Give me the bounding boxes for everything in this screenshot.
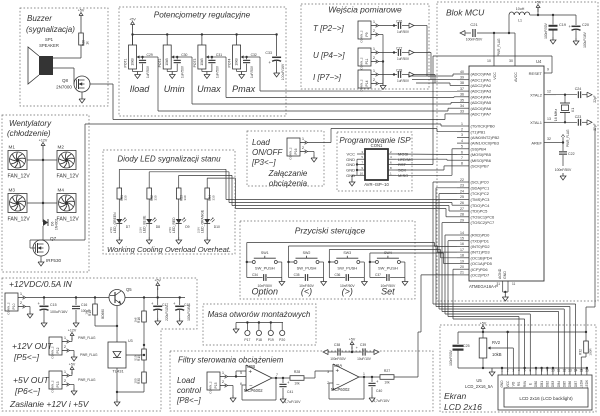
title Zalaczanie obciazenia xyxy=(251,138,308,188)
svg-text:CONN_2: CONN_2 xyxy=(360,79,364,92)
svg-text:11: 11 xyxy=(512,282,516,286)
svg-text:POT4: POT4 xyxy=(228,58,232,67)
svg-text:100nF/50V: 100nF/50V xyxy=(330,357,346,361)
section box Buzzer xyxy=(20,8,108,106)
svg-text:RV2: RV2 xyxy=(492,340,501,345)
diode D6 flyback xyxy=(43,219,59,230)
title +12VDC/0.5A IN xyxy=(9,279,73,289)
svg-text:(TMS)PC3: (TMS)PC3 xyxy=(471,197,491,202)
label Working Cooling Overload Overheat xyxy=(107,245,231,254)
svg-text:(SDA)PC1: (SDA)PC1 xyxy=(471,185,490,190)
svg-text:19: 19 xyxy=(460,259,464,263)
wire buzzer bus to PA7 xyxy=(113,114,457,120)
svg-text:SW1: SW1 xyxy=(261,251,269,255)
label Umin xyxy=(164,84,185,94)
svg-text:100nF/50V: 100nF/50V xyxy=(466,38,483,42)
svg-text:R19: R19 xyxy=(137,355,141,361)
svg-text:C21: C21 xyxy=(470,22,478,27)
svg-text:22pF: 22pF xyxy=(593,95,597,102)
wire SW2 to MCU xyxy=(289,246,458,262)
svg-text:P17: P17 xyxy=(244,338,250,342)
pin 18 (OC1B)PD4 xyxy=(457,254,493,261)
motor fan M1 FAN_12V xyxy=(8,145,31,180)
capacitor C35 10nF/50V xyxy=(289,262,324,288)
wire speaker to R26 xyxy=(53,45,81,58)
svg-text:32: 32 xyxy=(547,137,551,141)
svg-text:100nF/50V: 100nF/50V xyxy=(449,349,453,365)
svg-text:C15: C15 xyxy=(50,303,57,307)
capacitor C37 10nF/50V xyxy=(370,262,405,288)
capacitor C39 10uF/10V xyxy=(352,343,379,361)
wire PD1 to LCD RS xyxy=(448,241,519,373)
resistor R19 510 xyxy=(134,344,147,372)
pin 10 VCC xyxy=(487,58,497,80)
capacitor C41 4,7uF/10V xyxy=(279,378,301,404)
mounting hole P18 xyxy=(256,323,262,343)
svg-text:LED_RED: LED_RED xyxy=(172,217,176,233)
svg-text:CONN_2: CONN_2 xyxy=(360,30,364,43)
svg-text:P13: P13 xyxy=(56,381,60,387)
svg-text:Przyciski sterujące: Przyciski sterujące xyxy=(295,226,366,236)
svg-text:TL431: TL431 xyxy=(112,369,124,374)
svg-text:3: 3 xyxy=(461,133,463,137)
wire input rail xyxy=(26,296,110,298)
wire U6A output node xyxy=(359,376,380,378)
wire D9 to MCU xyxy=(179,175,232,205)
section box Filtry xyxy=(170,351,433,411)
svg-text:POT1: POT1 xyxy=(124,58,128,67)
wire RV2 wiper to VO pin3 xyxy=(492,348,513,373)
svg-text:10kB: 10kB xyxy=(235,58,239,65)
title Filtry sterowania obciazeniem xyxy=(178,356,284,365)
pin 21 (OC2)PD7 xyxy=(457,271,490,278)
svg-text:21: 21 xyxy=(460,271,464,275)
wire U signal to MCU xyxy=(414,53,431,80)
svg-text:+5V: +5V xyxy=(78,9,85,13)
wire fan row2 xyxy=(27,202,57,204)
power +5V LCD xyxy=(480,322,487,339)
svg-text:M3: M3 xyxy=(9,188,16,193)
svg-text:SPEAKER: SPEAKER xyxy=(39,43,59,48)
pin 1 (T0/XCK)PB0 xyxy=(457,122,496,129)
svg-text:PWR_FLAG: PWR_FLAG xyxy=(497,38,501,56)
svg-text:1uF/50V: 1uF/50V xyxy=(397,30,410,34)
svg-text:CON1: CON1 xyxy=(371,143,383,148)
wire U6A feedback xyxy=(329,377,364,399)
capacitor C24 22pF xyxy=(575,87,597,103)
svg-text:(ADC2)PA2: (ADC2)PA2 xyxy=(471,83,492,88)
svg-text:+5V OUT: +5V OUT xyxy=(13,375,49,385)
wire LED bus to PC5 xyxy=(232,206,457,212)
svg-text:Załączanie: Załączanie xyxy=(268,169,308,178)
svg-text:(TOSC1)PC6: (TOSC1)PC6 xyxy=(471,214,495,219)
svg-text:P9: P9 xyxy=(365,32,369,36)
pin CON1 row 5 GND/MISO xyxy=(346,171,408,178)
ground SW4 xyxy=(402,278,408,286)
svg-text:MCP6002: MCP6002 xyxy=(244,388,263,393)
svg-text:U3: U3 xyxy=(128,339,133,343)
svg-text:C38: C38 xyxy=(334,343,340,347)
pin 37 (ADC3)PA3 xyxy=(457,87,492,94)
pin LCD 3 xyxy=(512,369,516,387)
svg-text:8: 8 xyxy=(541,369,543,373)
mounting hole P17 xyxy=(244,323,250,343)
svg-text:2: 2 xyxy=(461,128,463,132)
svg-text:Filtry sterowania obciążeniem: Filtry sterowania obciążeniem xyxy=(178,356,284,365)
svg-text:C30: C30 xyxy=(181,53,187,57)
svg-text:R28: R28 xyxy=(294,370,300,374)
capacitor C19 100nF/50V xyxy=(544,15,566,39)
ground SW3 xyxy=(361,278,367,286)
svg-text:6: 6 xyxy=(461,150,463,154)
svg-text:C22: C22 xyxy=(568,152,575,156)
svg-text:10: 10 xyxy=(360,171,364,175)
svg-text:Set: Set xyxy=(381,287,395,297)
svg-text:330: 330 xyxy=(154,195,158,200)
svg-text:5: 5 xyxy=(524,369,526,373)
wire R30 to ground node xyxy=(117,391,144,393)
wire PD0 to LCD E xyxy=(445,235,530,373)
svg-text:RS: RS xyxy=(517,382,521,386)
op-amp U6B MCP6002 xyxy=(240,364,278,393)
pin 38 (ADC2)PA2 xyxy=(457,81,492,88)
potentiometer RV2 10kB contrast xyxy=(479,332,502,368)
svg-text:POT2: POT2 xyxy=(158,58,162,67)
ground LCD rail xyxy=(489,368,495,376)
section box Przyciski sterujace xyxy=(240,221,415,299)
connector P13 +5V out xyxy=(49,369,70,393)
ground C19 xyxy=(550,37,556,44)
transistor Q5 BD680 pass xyxy=(101,287,132,319)
pin 12 XTAL2 xyxy=(530,89,556,97)
inductor L1 10uH xyxy=(509,7,530,33)
pin 33 (ADC7)PA7 xyxy=(457,110,492,117)
svg-text:3: 3 xyxy=(512,369,514,373)
svg-text:D7: D7 xyxy=(126,225,130,229)
connector P16 load on/off xyxy=(287,136,308,160)
pin 25 (TMS)PC3 xyxy=(457,195,490,202)
svg-text:510: 510 xyxy=(134,355,138,360)
wire PC0 to LCD DB7 xyxy=(433,182,576,373)
capacitor C25 100nF/50V xyxy=(449,332,470,368)
title Load control P8 xyxy=(176,376,201,405)
svg-text:4,7uF/10V: 4,7uF/10V xyxy=(284,400,301,404)
LED D7 LED_GREEN xyxy=(109,199,130,233)
svg-text:4,7uF/10V: 4,7uF/10V xyxy=(373,399,390,403)
wire Iload wiper to ADC bus xyxy=(143,57,159,111)
svg-text:GND: GND xyxy=(346,162,355,167)
wire PD6 stub xyxy=(453,269,525,373)
wire TL431 cathode/ref xyxy=(116,355,144,398)
section box Diody LED xyxy=(103,150,235,254)
ground SW2 xyxy=(321,278,327,286)
svg-text:IRF530: IRF530 xyxy=(46,258,62,263)
wire SW3 to MCU xyxy=(329,250,457,263)
wire R27 to PWM feed xyxy=(394,275,457,377)
wire ISP MOSI to PB5 xyxy=(396,153,457,156)
label Pmax xyxy=(232,84,256,94)
svg-text:Ekran: Ekran xyxy=(444,391,466,401)
svg-text:4: 4 xyxy=(518,369,520,373)
svg-text:(RXD)PD0: (RXD)PD0 xyxy=(471,233,491,238)
svg-text:C39: C39 xyxy=(360,343,366,347)
svg-text:P12: P12 xyxy=(56,347,60,353)
resistor R21 330R xyxy=(117,169,128,201)
svg-text:2,5V: 2,5V xyxy=(197,227,201,233)
wire LCD grounded pins xyxy=(502,368,587,373)
pin 13 XTAL1 xyxy=(530,117,556,125)
pin 29 (TOSC2)PC7 xyxy=(457,218,495,225)
svg-text:Load: Load xyxy=(177,376,195,385)
title Zasilanie +12V i +5V xyxy=(9,399,90,409)
svg-text:1: 1 xyxy=(501,369,503,373)
wire VCC AVCC feeds xyxy=(493,32,515,66)
potentiometer POT2 Umin xyxy=(158,35,176,70)
pin CON1 row 2 GND/LED/MC xyxy=(346,155,413,162)
svg-text:GND: GND xyxy=(346,168,355,173)
svg-text:P15: P15 xyxy=(214,382,218,388)
capacitor C23 22pF xyxy=(575,115,597,131)
svg-text:37: 37 xyxy=(460,87,464,91)
label (&gt;) xyxy=(342,287,353,297)
svg-text:FAN_12V: FAN_12V xyxy=(57,217,80,223)
ground SW1 xyxy=(279,278,285,286)
svg-text:100uF/16V: 100uF/16V xyxy=(187,304,191,320)
svg-text:C27: C27 xyxy=(396,47,402,51)
svg-text:(ADC7)PA7: (ADC7)PA7 xyxy=(471,112,492,117)
section box Masa otworow xyxy=(203,304,316,345)
pin 17 (INT1)PD3 xyxy=(457,248,490,255)
motor fan M4 FAN_12V xyxy=(57,188,80,223)
label +5V OUT [P6] xyxy=(13,375,49,396)
svg-text:+5V: +5V xyxy=(349,338,356,342)
pin 3 (AIN0/INT2)PB2 xyxy=(457,133,500,140)
svg-text:+: + xyxy=(336,369,340,375)
svg-text:Load: Load xyxy=(252,138,270,147)
svg-text:GND: GND xyxy=(500,380,504,388)
svg-text:SW2: SW2 xyxy=(303,251,311,255)
svg-text:Pmax: Pmax xyxy=(232,84,256,94)
svg-text:DB7: DB7 xyxy=(574,381,578,387)
wire Umin wiper to ADC bus xyxy=(177,57,192,104)
svg-text:(sygnalizacja): (sygnalizacja) xyxy=(26,25,75,34)
svg-text:100: 100 xyxy=(134,378,138,383)
svg-text:P11: P11 xyxy=(365,58,369,64)
title Blok MCU xyxy=(446,8,485,18)
svg-text:Zasilanie +12V i +5V: Zasilanie +12V i +5V xyxy=(9,399,90,409)
svg-text:C31: C31 xyxy=(216,53,222,57)
pin LCD 7 xyxy=(534,369,538,388)
wire Q7 gate to PWM bus xyxy=(30,124,85,248)
svg-text:10k: 10k xyxy=(384,381,390,385)
wire D7 to MCU xyxy=(119,169,226,199)
resistor R18 1k xyxy=(85,298,98,323)
section box Wejscia pomiarowe xyxy=(301,4,429,89)
resistor R32 100R backlight xyxy=(579,332,593,373)
connector P11 input U xyxy=(313,46,379,70)
pin 23 (SDA)PC1 xyxy=(457,184,490,191)
svg-text:100uF/16V: 100uF/16V xyxy=(50,310,68,314)
svg-text:(MOSI)PB5: (MOSI)PB5 xyxy=(471,152,492,157)
svg-text:LEDA: LEDA xyxy=(579,379,583,388)
svg-text:13: 13 xyxy=(568,369,572,373)
svg-text:XTAL1: XTAL1 xyxy=(530,120,543,125)
svg-text:15: 15 xyxy=(579,369,583,373)
svg-text:100uF/16V: 100uF/16V xyxy=(583,31,587,47)
mounting hole P19 xyxy=(268,323,274,343)
wire Pmax wiper to ADC bus xyxy=(247,57,260,91)
svg-text:obciążenia: obciążenia xyxy=(269,179,308,188)
svg-text:3: 3 xyxy=(327,370,329,374)
svg-text:XTAL2: XTAL2 xyxy=(530,93,543,98)
pin 4 (AIN1/OC0)PB3 xyxy=(457,139,500,146)
svg-text:(ADC1)PA1: (ADC1)PA1 xyxy=(471,77,492,82)
svg-text:VCC: VCC xyxy=(506,380,510,387)
svg-text:FAN_12V: FAN_12V xyxy=(57,174,80,180)
pin 35 (ADC5)PA5 xyxy=(457,98,492,105)
wire I to PA2 xyxy=(416,83,457,85)
capacitor C33 100uF/16V xyxy=(265,35,285,81)
capacitor C38 100nF/50V decoupling xyxy=(323,343,352,361)
svg-text:(SCK)PB7: (SCK)PB7 xyxy=(471,164,490,169)
svg-text:BD680: BD680 xyxy=(101,309,105,319)
svg-text:28: 28 xyxy=(460,213,464,217)
svg-text:C20: C20 xyxy=(582,23,589,27)
svg-text:LCD 2x16: LCD 2x16 xyxy=(444,402,482,412)
title Przyciski sterujace xyxy=(295,226,366,236)
svg-text:330: 330 xyxy=(183,195,187,200)
pin 15 (TXD)PD1 xyxy=(457,237,490,244)
ground CON1 xyxy=(349,179,355,186)
svg-text:(ADC3)PA3: (ADC3)PA3 xyxy=(471,89,492,94)
power +12V P12 flag xyxy=(68,329,96,342)
ground C16 xyxy=(73,320,79,327)
svg-text:AVCC: AVCC xyxy=(514,72,518,82)
ground C33 xyxy=(274,70,280,77)
svg-text:7: 7 xyxy=(535,369,537,373)
svg-text:Wentylatory: Wentylatory xyxy=(9,119,52,128)
resistor R30 100 xyxy=(134,372,147,392)
wire ISP RST to RESET pin xyxy=(396,56,552,165)
svg-text:18: 18 xyxy=(460,254,464,258)
svg-text:U6A: U6A xyxy=(334,363,342,368)
pin LCD 10 xyxy=(551,369,555,388)
wire R18 to base node xyxy=(95,322,118,327)
svg-text:+5V: +5V xyxy=(480,322,487,326)
svg-text:2N7000: 2N7000 xyxy=(56,85,72,90)
svg-text:2: 2 xyxy=(507,369,509,373)
svg-text:E: E xyxy=(529,383,533,385)
title Masa otworow montazowych xyxy=(208,310,311,319)
resistor R26 buzzer pull-up xyxy=(79,33,90,46)
wire D10 to MCU xyxy=(207,178,235,208)
pin LCD 2 xyxy=(506,369,510,388)
wire CON1 gnd bus xyxy=(352,159,358,179)
svg-text:L1: L1 xyxy=(518,19,522,23)
svg-text:DB0: DB0 xyxy=(534,381,538,387)
op IC U4 ATMEGA16A-P body xyxy=(469,59,544,289)
svg-text:11: 11 xyxy=(557,369,561,373)
svg-text:PWR_FLAG: PWR_FLAG xyxy=(566,129,570,147)
ground C18 xyxy=(177,318,183,325)
connector P14 input I xyxy=(313,68,379,92)
wire fan center column xyxy=(42,152,44,222)
svg-text:DB2: DB2 xyxy=(545,381,549,387)
svg-text:M1: M1 xyxy=(9,145,16,150)
ground D9 xyxy=(176,223,182,244)
svg-text:100nF/50V: 100nF/50V xyxy=(544,22,548,38)
svg-text:20: 20 xyxy=(460,265,464,269)
svg-text:Wejścia pomiarowe: Wejścia pomiarowe xyxy=(328,5,402,15)
wire Q5 emitter rail +5 xyxy=(125,296,185,298)
svg-text:U [P4−>]: U [P4−>] xyxy=(313,51,345,60)
capacitor C15 100uF/16V xyxy=(38,298,69,321)
ground Wejscia common xyxy=(380,60,386,89)
svg-text:M4: M4 xyxy=(58,188,65,193)
svg-text:M2: M2 xyxy=(58,145,65,150)
wire P11 pin2 to gnd bus xyxy=(379,62,384,84)
svg-text:1uF/50V: 1uF/50V xyxy=(250,65,254,78)
wire LCD ground rail xyxy=(458,367,588,369)
svg-text:CONN_2: CONN_2 xyxy=(51,346,55,359)
resistor R23 330R xyxy=(176,175,187,201)
potentiometer POT3 Umax xyxy=(193,35,211,70)
svg-text:27: 27 xyxy=(460,207,464,211)
svg-text:LEDK: LEDK xyxy=(585,379,589,388)
svg-text:D10: D10 xyxy=(214,225,220,229)
wire P14 pin2 to gnd bus xyxy=(379,83,384,85)
svg-text:+12VDC/0.5A IN: +12VDC/0.5A IN xyxy=(9,279,73,289)
svg-text:25: 25 xyxy=(460,195,464,199)
pin CON1 row 4 GND/SCK xyxy=(346,166,406,173)
wire LED bus to PC3 xyxy=(226,198,457,200)
svg-text:30: 30 xyxy=(509,59,513,63)
svg-text:7: 7 xyxy=(461,156,463,160)
svg-text:C32: C32 xyxy=(251,53,257,57)
svg-text:SW_PUSH: SW_PUSH xyxy=(297,266,317,271)
label +12V OUT [P5] xyxy=(12,341,53,362)
capacitor C22 100nF/50V xyxy=(555,152,575,172)
svg-text:CONN_2: CONN_2 xyxy=(7,302,11,315)
ground P10 pin2 xyxy=(26,307,34,319)
ground C17 xyxy=(155,318,161,325)
wire R28 to U6A + xyxy=(304,371,333,378)
svg-text:C24: C24 xyxy=(575,87,582,91)
svg-text:C34: C34 xyxy=(252,273,258,277)
section box Programowanie ISP xyxy=(337,132,412,191)
svg-text:13: 13 xyxy=(547,117,551,121)
resistor R27 10k xyxy=(380,369,394,385)
wire XTAL2 net xyxy=(556,94,577,96)
power +5V output node xyxy=(154,279,161,298)
svg-text:C26: C26 xyxy=(396,20,402,24)
ground P12 pin2 xyxy=(70,351,99,362)
svg-text:1uF/50V: 1uF/50V xyxy=(215,65,219,78)
wire AREF net xyxy=(556,141,564,151)
svg-text:8: 8 xyxy=(461,162,463,166)
svg-text:(TDO)PC4: (TDO)PC4 xyxy=(471,203,491,208)
svg-text:1k8: 1k8 xyxy=(134,317,138,322)
label Iload xyxy=(130,84,151,94)
svg-text:SW_PUSH: SW_PUSH xyxy=(378,266,398,271)
svg-text:+5V: +5V xyxy=(69,363,76,367)
svg-text:C23: C23 xyxy=(575,115,582,119)
wire ISP SCK to PB7 xyxy=(396,166,457,170)
svg-text:R/W: R/W xyxy=(523,381,527,387)
svg-text:DB4: DB4 xyxy=(557,381,561,387)
wire PC1 to LCD DB6 xyxy=(436,188,570,373)
ground P13 pin2 xyxy=(70,385,78,396)
